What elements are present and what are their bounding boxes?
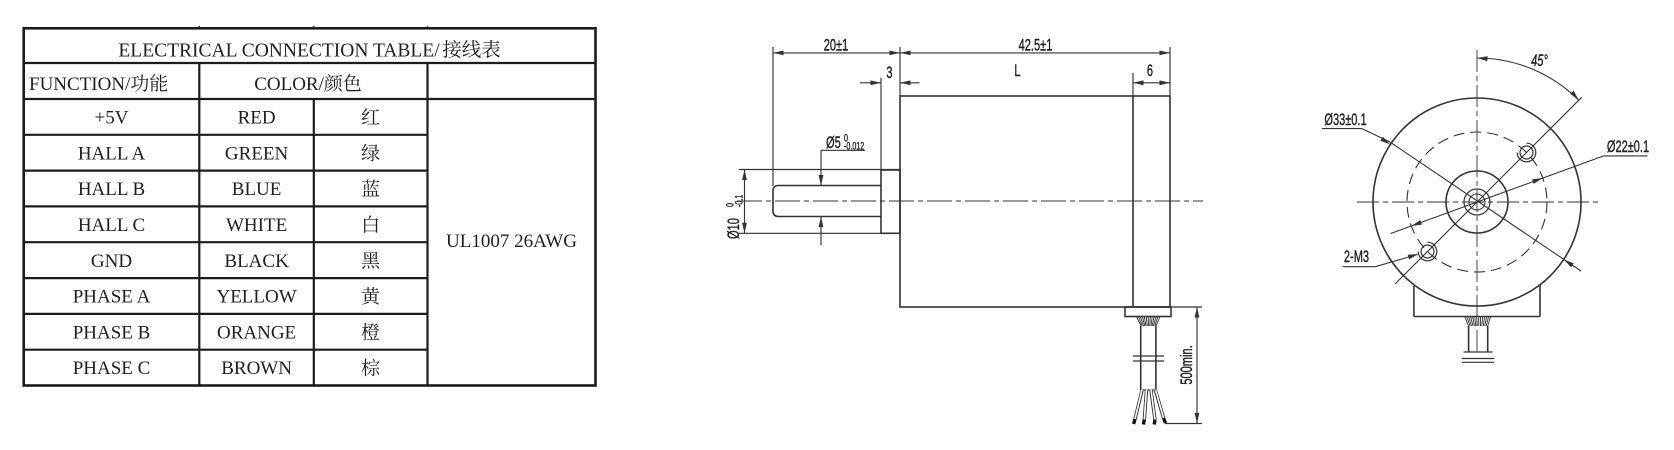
svg-text:L: L bbox=[1014, 62, 1020, 81]
dimension Ø33±0.1 bbox=[1322, 111, 1581, 271]
table row HALL A GREEN 绿 bbox=[78, 143, 380, 164]
M3 hole lower-left bbox=[1418, 242, 1437, 261]
mounting base (front view) bbox=[1414, 285, 1540, 317]
svg-text:45°: 45° bbox=[1531, 52, 1548, 71]
label L bbox=[1014, 62, 1020, 81]
svg-text:PHASE A: PHASE A bbox=[73, 287, 151, 308]
svg-text:GND: GND bbox=[91, 251, 132, 272]
center hole circle bbox=[1469, 194, 1485, 210]
wire bundle hatch (side view) bbox=[1137, 317, 1161, 327]
cable exit flange (side view) bbox=[1125, 307, 1171, 317]
splayed wires (side view) bbox=[1134, 390, 1166, 425]
header cell FUNCTION/功能 bbox=[29, 74, 167, 95]
svg-text:ELECTRICAL CONNECTION TABLE/: ELECTRICAL CONNECTION TABLE/ bbox=[118, 40, 440, 61]
svg-text:HALL C: HALL C bbox=[78, 215, 145, 236]
cable break lines (front view) bbox=[1462, 359, 1494, 363]
motor body (side view) bbox=[900, 96, 1170, 307]
svg-text:500min.: 500min. bbox=[1178, 345, 1197, 384]
45° diagonal line bbox=[1395, 97, 1582, 284]
table row GND BLACK 黑 bbox=[91, 251, 379, 272]
dimension 500min. bbox=[1165, 307, 1202, 424]
shaft circle bbox=[1464, 189, 1490, 215]
svg-text:UL1007 26AWG: UL1007 26AWG bbox=[446, 231, 577, 252]
table row PHASE A YELLOW 黄 bbox=[73, 287, 380, 308]
table row PHASE B ORANGE 橙 bbox=[73, 322, 380, 343]
cable connector (front view) bbox=[1464, 326, 1493, 352]
table row PHASE C BROWN 棕 bbox=[73, 358, 380, 379]
svg-text:3: 3 bbox=[886, 64, 892, 83]
bolt circle Ø22 (dashed) bbox=[1407, 132, 1547, 272]
label 2-M3 bbox=[1343, 248, 1419, 267]
shaft bbox=[773, 186, 881, 217]
dimension 3 bbox=[860, 64, 920, 170]
rear end-cap line bbox=[1132, 96, 1134, 307]
svg-text:WHITE: WHITE bbox=[226, 215, 287, 236]
table row HALL B BLUE 蓝 bbox=[78, 179, 380, 200]
M3 hole upper-right bbox=[1517, 143, 1536, 162]
45° angular dimension bbox=[1477, 52, 1579, 100]
svg-text:BROWN: BROWN bbox=[221, 358, 292, 379]
centerline (side view) bbox=[737, 200, 1203, 202]
svg-text:HALL A: HALL A bbox=[78, 143, 146, 164]
svg-text:20±1: 20±1 bbox=[824, 36, 849, 55]
svg-text:-0.1: -0.1 bbox=[733, 195, 745, 207]
svg-text:HALL B: HALL B bbox=[78, 179, 145, 200]
svg-text:6: 6 bbox=[1147, 62, 1153, 81]
svg-text:YELLOW: YELLOW bbox=[216, 287, 296, 308]
horizontal centerline (front view) bbox=[1357, 201, 1600, 203]
dimension Ø22±0.1 bbox=[1391, 138, 1650, 234]
table title ELECTRICAL CONNECTION TABLE/接线表 bbox=[118, 40, 500, 61]
svg-text:Ø22±0.1: Ø22±0.1 bbox=[1607, 138, 1649, 157]
svg-text:42.5±1: 42.5±1 bbox=[1019, 36, 1053, 55]
dimension 20±1 bbox=[773, 36, 900, 186]
svg-text:PHASE B: PHASE B bbox=[73, 322, 151, 343]
svg-text:Ø5: Ø5 bbox=[826, 134, 841, 153]
svg-text:FUNCTION/: FUNCTION/ bbox=[29, 74, 131, 95]
vertical centerline (front view) bbox=[1476, 50, 1478, 352]
svg-text:RED: RED bbox=[238, 108, 276, 129]
cell UL1007 26AWG bbox=[446, 231, 577, 252]
dimension 6 bbox=[1133, 62, 1170, 96]
svg-text:GREEN: GREEN bbox=[225, 143, 289, 164]
dimension 42.5±1 bbox=[900, 36, 1170, 96]
svg-text:COLOR/: COLOR/ bbox=[254, 74, 324, 95]
dimension Ø10 0/-0.1 bbox=[724, 170, 900, 240]
electrical connection table grid bbox=[24, 26, 596, 386]
front boss bbox=[881, 170, 900, 233]
svg-text:-0.012: -0.012 bbox=[844, 140, 864, 152]
svg-text:BLUE: BLUE bbox=[232, 179, 282, 200]
dimension Ø5 0/-0.012 bbox=[819, 132, 865, 245]
svg-text:2-M3: 2-M3 bbox=[1344, 248, 1369, 267]
svg-text:PHASE C: PHASE C bbox=[73, 358, 151, 379]
cable break lines (side view) bbox=[1133, 356, 1164, 361]
boss circle Ø10 bbox=[1446, 171, 1508, 233]
svg-text:+5V: +5V bbox=[95, 108, 129, 129]
svg-text:Ø33±0.1: Ø33±0.1 bbox=[1324, 111, 1366, 130]
table row HALL C WHITE 白 bbox=[78, 215, 378, 236]
table row +5V RED 红 bbox=[95, 108, 380, 129]
svg-text:BLACK: BLACK bbox=[224, 251, 289, 272]
header cell COLOR/颜色 bbox=[254, 74, 361, 95]
front view outer circle Ø33 body bbox=[1373, 98, 1581, 306]
cable (side view) bbox=[1141, 326, 1156, 390]
svg-text:ORANGE: ORANGE bbox=[217, 322, 296, 343]
wire bundle hatch (front view) bbox=[1465, 317, 1491, 327]
svg-text:Ø10: Ø10 bbox=[725, 218, 744, 239]
